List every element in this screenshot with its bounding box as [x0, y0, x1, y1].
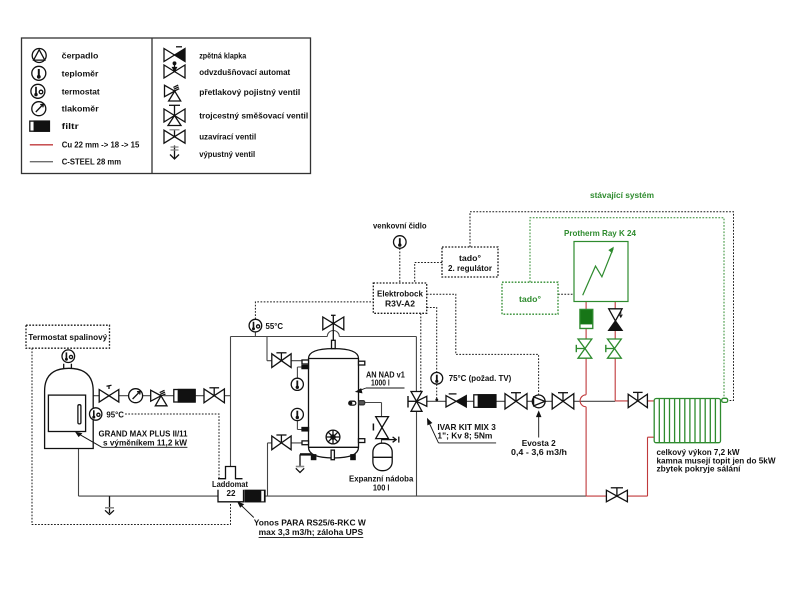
tank nozzles: [302, 340, 365, 444]
CONTROL WIRES (dashed): [32, 212, 734, 525]
svg-text:s výměníkem 11,2 kW: s výměníkem 11,2 kW: [103, 437, 188, 447]
wire Elektrobock to 3-way valve actuator: [420, 313, 422, 391]
svg-text:filtr: filtr: [62, 121, 80, 131]
Protherm Ray K 24 boiler box: [574, 242, 628, 302]
wire Elektrobock to Evosta pump: [427, 294, 539, 395]
drain valve under boiler return: [105, 496, 114, 514]
thermometer 75C: [431, 372, 443, 401]
filter on supply: [474, 395, 496, 408]
wire tank top pipe with hop: [231, 331, 417, 392]
wire tado green zone boundary: [530, 218, 724, 398]
wire tank lower valve to bottom: [268, 443, 303, 496]
svg-text:22: 22: [227, 488, 236, 498]
legend shut-off valve icon: [164, 130, 185, 143]
wire radiator return (red): [586, 437, 654, 496]
shut-off valve (green) right: [606, 339, 622, 358]
legend Cu pipe sample: [30, 144, 53, 146]
buffer tank AN NAD v1 1000l: [309, 349, 359, 458]
outdoor sensor: [394, 236, 407, 249]
wire bottom return line: [79, 495, 587, 497]
pressure gauge: [129, 389, 143, 403]
svg-text:stávající systém: stávající systém: [590, 190, 654, 200]
filter on boiler supply: [174, 390, 195, 403]
wire Protherm supply (red): [614, 302, 616, 401]
legend filter icon: [30, 121, 50, 131]
radiator valve: [628, 392, 647, 407]
wire outdoor sensor to Elektrobock: [399, 248, 401, 283]
Elektrobock R3V-A2 box: [373, 283, 426, 313]
wire tado 2.regulator to radiator head: [470, 212, 734, 401]
thermostat 95C on boiler: [90, 408, 102, 420]
tank drain assembly: [296, 454, 311, 472]
wire 55C sensor to Elektrobock: [255, 302, 373, 319]
legend pressure-gauge icon: [32, 102, 46, 116]
legend thermostat icon: [31, 84, 45, 98]
svg-text:75°C (požad. TV): 75°C (požad. TV): [449, 373, 512, 383]
tank flange rosette: [326, 430, 340, 444]
wire tank sensor T2: [297, 421, 302, 430]
wire tank sensor to safety group: [365, 403, 382, 444]
safety relief valve on boiler: [151, 390, 167, 406]
legend pump icon: [32, 49, 46, 63]
shut-off valve (green) left: [576, 339, 592, 358]
svg-text:uzavírací ventil: uzavírací ventil: [199, 132, 256, 142]
shut-off valve on boiler supply: [204, 388, 224, 403]
legend check valve icon: [164, 47, 185, 62]
thermostat 55C on top pipe: [249, 319, 262, 332]
PIPES: [79, 302, 655, 497]
tank sensor pocket: [349, 401, 365, 406]
Yonos label underline: [259, 537, 364, 539]
discharge arrow: [382, 437, 399, 443]
wire flue thermostat to Laddomat: [32, 348, 231, 524]
Laddomat 22 unit: [218, 467, 244, 502]
svg-text:max 3,3 m3/h; záloha UPS: max 3,3 m3/h; záloha UPS: [259, 527, 364, 537]
radiator: [654, 398, 728, 442]
svg-text:trojcestný směšovací ventil: trojcestný směšovací ventil: [199, 111, 308, 121]
filter (green) on Protherm return: [580, 309, 593, 328]
flue thermostat label box: [26, 325, 110, 348]
check valve on supply: [446, 394, 466, 407]
svg-text:čerpadlo: čerpadlo: [62, 51, 99, 61]
wire radiator supply (red): [615, 400, 654, 402]
tank feet and bottom stub: [311, 450, 356, 460]
svg-text:Cu 22 mm -> 18 -> 15: Cu 22 mm -> 18 -> 15: [62, 139, 140, 149]
Evosta label leader: [537, 412, 541, 438]
IVAR label leader: [428, 419, 439, 443]
wire tank sensor T1: [297, 367, 302, 378]
Yonos label leader: [238, 502, 254, 517]
svg-text:55°C: 55°C: [266, 321, 284, 331]
wire branch to tank upper valve: [267, 337, 302, 361]
svg-text:Protherm Ray K 24: Protherm Ray K 24: [564, 228, 636, 238]
wire tado to Protherm: [558, 293, 575, 295]
svg-text:Elektrobock: Elektrobock: [377, 289, 423, 299]
radiator thermostatic head: [722, 398, 728, 402]
wire mixed supply line: [427, 400, 615, 402]
svg-text:tado°: tado°: [519, 294, 542, 304]
pump Evosta 2: [532, 395, 545, 408]
svg-text:0,4 - 3,6 m3/h: 0,4 - 3,6 m3/h: [511, 447, 567, 457]
svg-text:1"; Kv 8; 5Nm: 1"; Kv 8; 5Nm: [437, 431, 492, 441]
svg-text:1000 l: 1000 l: [371, 378, 390, 388]
expansion vessel: [373, 443, 392, 471]
svg-text:tlakoměr: tlakoměr: [62, 104, 100, 114]
svg-text:venkovní čidlo: venkovní čidlo: [373, 220, 427, 230]
wire 55C sensor stub: [254, 332, 256, 337]
shut-off valve supply 1: [505, 393, 527, 409]
svg-text:odvzdušňovací automat: odvzdušňovací automat: [199, 67, 290, 77]
legend relief valve icon: [165, 85, 181, 101]
wire 3-way valve bottom drop: [416, 411, 418, 496]
legend divider: [151, 38, 153, 174]
svg-text:Termostat spalinový: Termostat spalinový: [28, 332, 107, 342]
svg-text:R3V-A2: R3V-A2: [385, 298, 415, 308]
svg-text:zbytek pokryje sálání: zbytek pokryje sálání: [657, 464, 742, 474]
svg-text:teploměr: teploměr: [62, 68, 99, 78]
valve V1 on boiler supply: [99, 385, 119, 402]
3-way mixing valve IVAR: [408, 392, 427, 412]
svg-text:100 l: 100 l: [373, 482, 390, 492]
wire boiler supply line: [93, 395, 230, 397]
IVAR label underline: [439, 442, 497, 444]
wire Elektrobock to 75C sensor: [427, 308, 437, 400]
svg-text:C-STEEL 28 mm: C-STEEL 28 mm: [62, 156, 122, 166]
wire Protherm return (red) with hop over supply: [580, 302, 586, 497]
thermometer T2: [291, 408, 303, 420]
svg-text:přetlakový pojistný ventil: přetlakový pojistný ventil: [199, 87, 300, 97]
svg-text:95°C: 95°C: [106, 409, 124, 419]
legend thermometer icon: [32, 66, 46, 80]
shut-off valve tank upper left: [272, 353, 291, 368]
boiler label leader: [76, 432, 102, 447]
boiler GRAND MAX PLUS: [45, 364, 94, 449]
thermometer T1: [291, 378, 303, 390]
shut-off valve tank lower left: [272, 435, 291, 450]
svg-text:termostat: termostat: [62, 86, 100, 96]
wire 95C sensor to Laddomat: [125, 414, 219, 479]
pump Yonos PARA (black box): [245, 490, 265, 502]
wire tado 2.regulator to Elektrobock: [415, 263, 442, 284]
legend frame: [22, 38, 311, 174]
AN NAD label underline: [366, 387, 405, 389]
LEGEND: [22, 38, 311, 174]
legend 3-way valve icon: [164, 105, 185, 125]
shut-off valve supply 2: [552, 393, 574, 409]
air vent valve on tank top: [323, 315, 344, 340]
tado box (green): [502, 282, 558, 314]
svg-text:zpětná klapka: zpětná klapka: [199, 50, 246, 60]
legend drain valve icon: [170, 146, 179, 160]
svg-text:výpustný ventil: výpustný ventil: [199, 149, 255, 159]
AN NAD label leader: [356, 388, 366, 393]
legend air-vent icon: [164, 62, 185, 78]
GRAND label underline: [102, 446, 187, 448]
legend C-STEEL pipe sample: [30, 161, 53, 163]
tado 2.regulator box: [442, 247, 498, 277]
safety valve at tank right: [373, 417, 388, 439]
svg-text:2. regulátor: 2. regulátor: [448, 263, 493, 273]
wire left riser: [230, 337, 232, 467]
check valve on Protherm supply: [609, 309, 623, 331]
shut-off valve (red) on radiator return: [606, 488, 627, 502]
svg-text:tado°: tado°: [459, 253, 482, 263]
thermostat on boiler top: [62, 350, 75, 363]
wire boiler return drop: [78, 449, 80, 497]
